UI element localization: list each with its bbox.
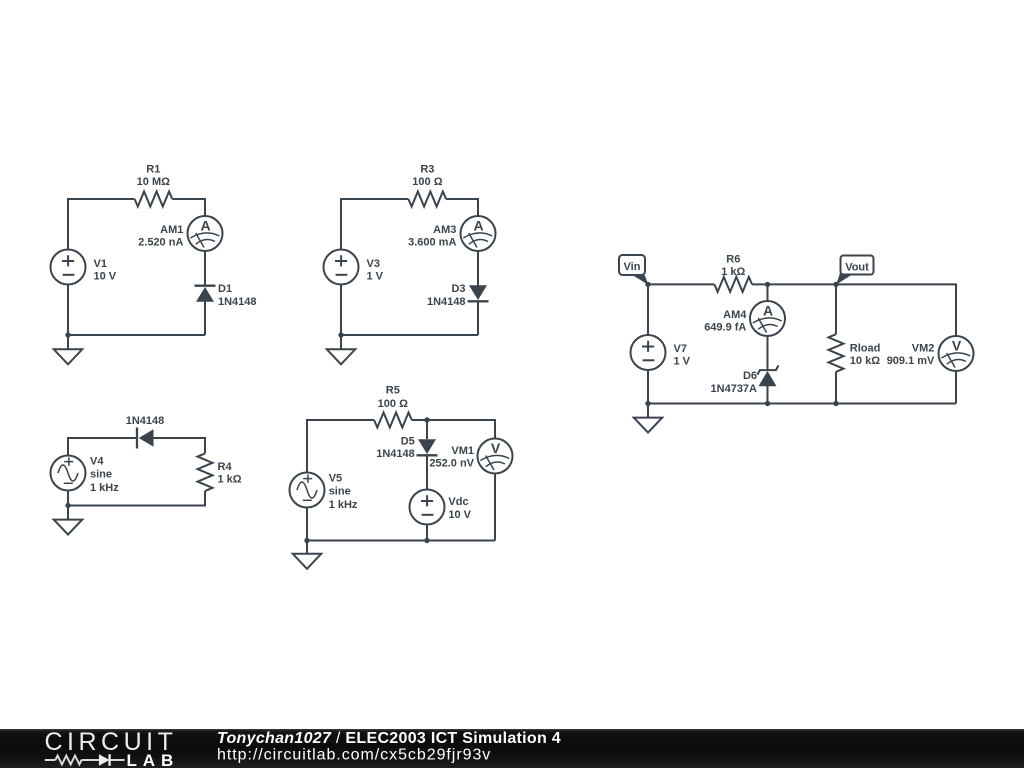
footer bar (0, 729, 1024, 768)
ground C1 triangle (54, 349, 83, 364)
VM2 gauge arc upper (941, 353, 970, 358)
voltmeter VM1 circle (478, 439, 513, 474)
svg-text:http://circuitlab.com/cx5cb29f: http://circuitlab.com/cx5cb29fjr93v (217, 747, 491, 764)
wire C5 top-left horizontal (648, 283, 714, 285)
resistor R3 zigzag (408, 192, 446, 207)
AM1 needle (196, 233, 204, 248)
V4 minus sign (64, 482, 73, 484)
V1 plus sign (62, 255, 74, 266)
resistor Rload zigzag (829, 334, 844, 372)
wire C5 ammeter branch upper (767, 284, 769, 301)
wire C4 top-left horizontal (307, 419, 374, 421)
AM4 gauge arc upper (753, 318, 782, 323)
DC source V7 circle (631, 335, 666, 370)
svg-text:Tonychan1027 / ELEC2003 ICT Si: Tonychan1027 / ELEC2003 ICT Simulation 4 (217, 730, 561, 747)
junction dot C5 bottom middle (765, 401, 770, 406)
zener diode D6 cathode bar with wings (757, 365, 778, 374)
V7 plus sign (642, 341, 654, 352)
wire C1 top-left horizontal (68, 198, 135, 200)
wire C1 diode to bottom corner (204, 301, 206, 335)
wire C2 left vertical lower (340, 285, 342, 337)
junction dot C5 ammeter top node (765, 282, 770, 287)
logo resistor zigzag (55, 756, 81, 765)
AM3 needle (469, 233, 477, 248)
logo diode bar (108, 754, 110, 766)
VM1 gauge arc upper (480, 455, 509, 460)
wire C4 middle branch upper (426, 420, 428, 439)
zener diode D6 triangle (759, 371, 777, 386)
wire C3 left vertical lower (67, 491, 69, 507)
ground C3 stub wire (67, 506, 69, 520)
wire C2 left vertical upper (340, 198, 342, 250)
V5 plus sign (303, 475, 312, 483)
wire C5 left vertical lower (647, 370, 649, 405)
diode 1N4148 triangle pointing left (139, 429, 154, 447)
logo wire middle (82, 759, 99, 761)
ammeter AM1 circle (188, 216, 223, 251)
wire C4 left vertical upper (306, 419, 308, 473)
DC source Vdc circle (410, 490, 445, 525)
wire C3 top-right horizontal (154, 437, 206, 439)
ammeter AM4 circle (750, 301, 785, 336)
VM1 needle (486, 456, 494, 471)
node flag Vin pointer (631, 274, 648, 285)
ground C5 triangle (634, 418, 663, 433)
diode D1 cathode bar (195, 285, 216, 287)
wire C3 right vertical lower (204, 491, 206, 506)
AM3 gauge arc lower (469, 239, 488, 244)
V3 plus sign (335, 255, 347, 266)
V4 sine wave (58, 465, 78, 481)
resistor R5 zigzag (374, 413, 412, 428)
wire C2 diode to bottom corner (477, 301, 479, 335)
wire C3 left vertical upper (67, 437, 69, 456)
wire C5 Rload branch lower (835, 372, 837, 404)
diode D5 triangle (418, 439, 436, 454)
junction dot C5 bottom Vout branch (833, 401, 838, 406)
logo diode triangle (99, 754, 110, 766)
wire C3 top-left horizontal (68, 437, 137, 439)
wire C2 top-left horizontal (341, 198, 408, 200)
V5 sine wave (297, 482, 317, 498)
wire C4 Vdc to bottom (426, 524, 428, 540)
wire C1 top-right horizontal (172, 198, 205, 200)
wire C5 right vertical lower (955, 371, 957, 404)
wire C3 bottom horizontal (68, 505, 205, 507)
wire C5 left vertical upper (647, 283, 649, 335)
ground C2 triangle (327, 349, 356, 364)
junction dot C5 Vout node (833, 282, 838, 287)
wire C2 top-right horizontal (446, 198, 478, 200)
wire C5 Rload branch upper (835, 284, 837, 334)
ground C4 triangle (293, 554, 322, 569)
svg-text:LAB: LAB (127, 751, 180, 768)
ground C2 stub wire (340, 335, 342, 349)
VM1 gauge arc lower (486, 462, 505, 467)
resistor R4 zigzag (198, 453, 213, 491)
V7 minus sign (643, 359, 655, 361)
V4 plus sign (64, 458, 73, 466)
AC source V5 circle (290, 473, 325, 508)
voltage source V3 circle (324, 250, 359, 285)
voltage source V1 circle (51, 250, 86, 285)
wire C1 left vertical upper (67, 198, 69, 250)
junction dot C4 bottom left (304, 538, 309, 543)
wire C2 right vertical to ammeter (477, 198, 479, 217)
diode D3 cathode bar (468, 300, 489, 302)
junction dot C3 bottom-left (65, 503, 70, 508)
wire C4 top horizontal to right corner (412, 419, 495, 421)
AC source V4 circle (51, 456, 86, 491)
junction dot C4 top middle (424, 417, 429, 422)
Vdc minus sign (422, 514, 434, 516)
AM1 gauge arc lower (196, 239, 215, 244)
V3 minus sign (336, 274, 348, 276)
diode D5 cathode bar (417, 454, 438, 456)
wire C5 top horizontal to right corner (752, 283, 956, 285)
node flag Vout pointer (836, 271, 852, 285)
voltmeter VM2 circle (939, 336, 974, 371)
AM1 gauge arc upper (190, 233, 219, 238)
wire C3 right vertical upper (204, 437, 206, 453)
wire C1 right vertical to ammeter (204, 198, 206, 217)
junction dot C2 bottom-left (338, 332, 343, 337)
ammeter AM3 circle (461, 216, 496, 251)
junction dot C5 bottom left (645, 401, 650, 406)
VM2 needle (947, 353, 955, 368)
wire C4 diode to Vdc (426, 455, 428, 489)
wire C1 bottom horizontal (68, 334, 205, 336)
junction dot C4 bottom middle (424, 538, 429, 543)
ground C1 stub wire (67, 335, 69, 349)
wire C2 ammeter to diode (477, 250, 479, 286)
logo resistor-diode symbol wire lead left (45, 759, 56, 761)
wire C1 left vertical lower (67, 285, 69, 337)
junction dot C5 Vin node (645, 282, 650, 287)
wire C4 bottom horizontal (307, 540, 495, 542)
ground C4 stub wire (306, 541, 308, 554)
wire C5 zener to bottom (767, 386, 769, 404)
junction dot C1 bottom-left (65, 332, 70, 337)
logo wire lead right (110, 759, 125, 761)
wire C5 ammeter to zener (767, 335, 769, 370)
wire C1 ammeter to diode (204, 250, 206, 286)
node flag Vout box (841, 256, 874, 275)
AM4 gauge arc lower (758, 324, 777, 329)
wire C5 bottom horizontal (648, 403, 956, 405)
ground C3 triangle (54, 520, 83, 535)
Vdc plus sign (421, 495, 433, 506)
VM2 gauge arc lower (947, 359, 966, 364)
wire C4 right vertical to voltmeter (494, 419, 496, 439)
wire C4 left vertical lower (306, 508, 308, 542)
wire C4 voltmeter to bottom corner (494, 473, 496, 540)
resistor R6 zigzag (714, 277, 752, 292)
V5 minus sign (303, 499, 312, 501)
diode D3 triangle (469, 285, 487, 300)
resistor R1 zigzag (135, 192, 173, 207)
V1 minus sign (63, 274, 75, 276)
wire C5 right vertical upper (955, 283, 957, 336)
AM4 needle (758, 318, 766, 333)
ground C5 stub wire (647, 404, 649, 418)
diode 1N4148 cathode bar (horizontal diode) (136, 428, 138, 449)
diode D1 triangle (196, 287, 214, 302)
AM3 gauge arc upper (463, 233, 492, 238)
wire C2 bottom horizontal (341, 334, 478, 336)
node flag Vin box (619, 255, 645, 275)
